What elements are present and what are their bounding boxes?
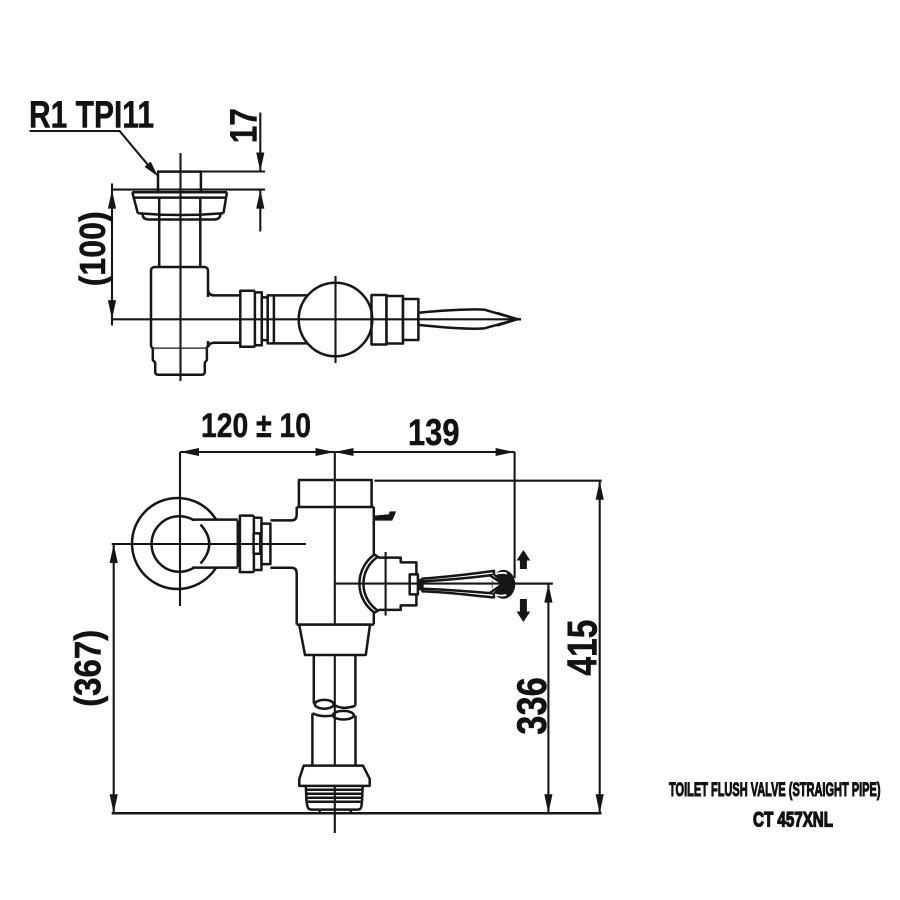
front view: spud flange bell [299, 766, 369, 786]
front view: body right edge segments [373, 507, 376, 625]
svg-text:TOILET FLUSH VALVE (STRAIGHT P: TOILET FLUSH VALVE (STRAIGHT PIPE) [669, 779, 881, 801]
front view: handle socket profile top [375, 555, 417, 575]
dimension line (367) [113, 544, 115, 813]
top view: handle inner facet lines [497, 313, 521, 326]
front view: pipe socket arc [201, 525, 210, 564]
front view: tailpipe upper edges [314, 655, 356, 706]
svg-text:415: 415 [558, 620, 605, 676]
dimension line (100) [111, 184, 113, 326]
front view: body bottom trapezoid [299, 625, 370, 655]
front view: lever grip bulb [492, 570, 516, 599]
top view: coupling nut inner edge [254, 292, 257, 345]
top view: body bottom tail [153, 349, 207, 375]
front view: ring before body [262, 524, 271, 565]
top view: white patch to open body right edge at outlet [204, 297, 213, 341]
top view: ring right of circle 3 [403, 299, 418, 340]
top view: second ring [268, 295, 274, 343]
extension line left (flange axis) [179, 452, 181, 606]
extension line top of thread (17 dim upper) [158, 170, 265, 172]
front view: bulb inner converging lines [490, 576, 503, 593]
front view: tailpipe lower edges [312, 714, 355, 767]
front view: bulb white wedge [493, 575, 504, 594]
arrowhead 139 left [335, 448, 354, 456]
arrowhead (367) top [110, 544, 118, 563]
arrowhead 415 top [596, 481, 604, 500]
top view: wall flange tapered sides [132, 192, 227, 213]
front view: handle socket inner arc [363, 557, 376, 610]
dimension line 120+-10 [180, 451, 335, 453]
front view: nut inner edge [253, 518, 256, 570]
top view: ring right of circle 2 [387, 296, 404, 344]
dimension line 415 [599, 481, 601, 814]
front view: spud bottom pins [320, 810, 351, 813]
front view: inlet pipe edges [192, 520, 238, 568]
front view: body bottom edge [297, 623, 374, 626]
front view: trip lever stub (black tick) [374, 511, 396, 520]
extension line centre (valve axis) [334, 452, 336, 833]
top view: wall flange top band [132, 192, 227, 197]
arrowhead 415 bottom [596, 794, 604, 813]
front view: handle socket profile bottom [375, 594, 417, 612]
front view: movement arrow up [517, 550, 531, 569]
top view: handle lever (plan) [418, 309, 517, 328]
extension line lever tip to 336 [516, 583, 553, 585]
front view: lever bar [422, 571, 494, 598]
front view: lever bar inner lines [422, 575, 493, 593]
dimension line 139 [335, 451, 515, 453]
top view: circle vertical centerline [334, 276, 336, 363]
front view: movement arrow down [517, 599, 531, 622]
dimension line 17 [259, 113, 261, 232]
front view: pipe break upper cup ellipse [315, 700, 334, 709]
extension line right (lever tip) [514, 452, 516, 578]
front view: spud thread side edges [306, 786, 363, 802]
top view: vertical centerline [179, 153, 181, 381]
svg-text:CT 457XNL: CT 457XNL [753, 808, 833, 831]
arrowhead (100) upper [108, 190, 116, 209]
front view: spud thread lines [306, 790, 362, 802]
svg-text:120 ± 10: 120 ± 10 [201, 407, 311, 445]
front view: body parting line [297, 506, 374, 509]
front view: handle pivot collar [410, 574, 418, 594]
svg-text:336: 336 [508, 677, 555, 735]
dimension line 336 [547, 584, 549, 814]
arrowhead (100) lower [108, 300, 116, 319]
front view: spud bottom band [307, 802, 363, 810]
arrowhead 336 top [544, 584, 552, 603]
top view: outlet stub to lever assembly [208, 291, 240, 348]
front view: pipe break upper sweep [334, 705, 356, 708]
svg-text:(367): (367) [67, 630, 109, 707]
svg-text:(100): (100) [72, 211, 113, 286]
top view: vertical supply pipe edges [159, 198, 200, 267]
front view: coupling nut [240, 516, 262, 573]
top view: wall flange bottom lip [143, 214, 221, 220]
front view: wall flange inner circle [152, 516, 207, 571]
front view: pipe end edge [237, 521, 240, 568]
front view: handle socket outer arc [359, 555, 374, 613]
top view: valve body block [151, 267, 208, 349]
arrowhead 120 right [316, 448, 335, 456]
front view: body left edge segments [295, 507, 298, 625]
top view: groove ring [262, 297, 268, 340]
front view: bulb white detail arcs [495, 573, 507, 596]
svg-text:17: 17 [224, 108, 266, 143]
top view: inlet thread end rectangle [158, 172, 201, 193]
arrowhead 120 left [180, 448, 199, 456]
front view: lever base block [418, 579, 423, 591]
top view: wall flange bottom curve [138, 213, 224, 215]
top view: valve cap circle [299, 283, 373, 357]
ground reference line [112, 812, 602, 815]
top view: coupling nut [240, 291, 261, 347]
front view: inlet pipe white body [194, 520, 240, 568]
leader line for R1 TPI11 [30, 131, 152, 169]
front view: wall flange outer circle [132, 498, 223, 589]
extension line body top to 415 [375, 480, 602, 482]
arrowhead 139 right [496, 448, 515, 456]
front view: pipe break lower sweep [312, 713, 333, 716]
arrowhead 336 bottom [544, 794, 552, 813]
front view: flange horizontal centerline [112, 543, 306, 545]
leader arrowhead [145, 162, 159, 177]
front view: lever horizontal centerline [336, 583, 553, 585]
arrowhead 17 lower [256, 190, 264, 209]
front view: set screw [254, 533, 261, 553]
front view: socket vertical centerline [385, 552, 387, 616]
svg-text:139: 139 [408, 411, 460, 453]
front view: body top cap [299, 480, 372, 507]
top view: pipe lines into valve cap circle [274, 295, 308, 343]
top view: horizontal centerline [111, 318, 520, 320]
front view: inlet boss curves [270, 515, 296, 574]
front view: pipe break lower cup ellipse [333, 711, 354, 720]
arrowhead 17 upper [256, 153, 264, 172]
extension line flange top (17 dim lower / 100 dim upper) [111, 189, 265, 191]
top view: ring right of circle 1 [372, 295, 387, 345]
arrowhead (367) bottom [110, 794, 118, 813]
